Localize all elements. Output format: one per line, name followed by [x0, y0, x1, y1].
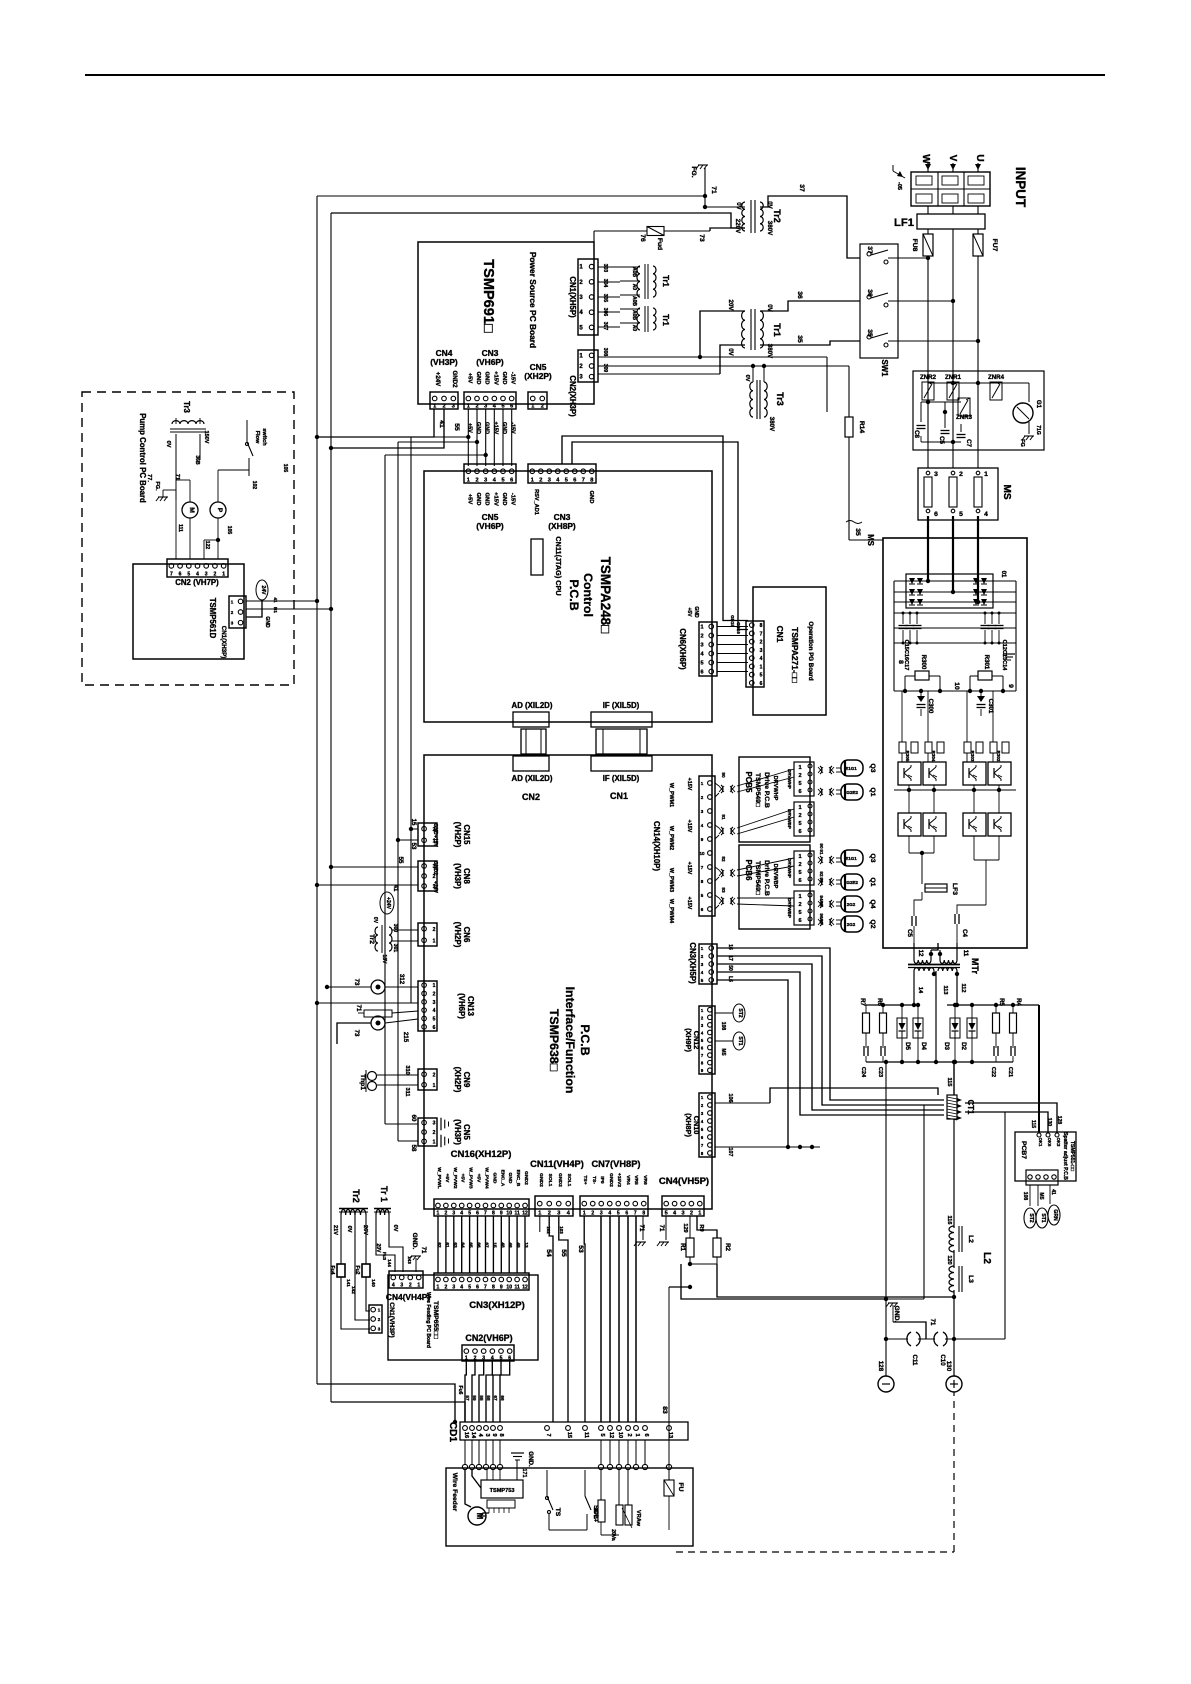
- svg-text:0V: 0V: [392, 1225, 398, 1232]
- svg-text:1: 1: [467, 478, 470, 484]
- svg-text:301: 301: [392, 944, 398, 953]
- svg-text:11: 11: [514, 1285, 520, 1291]
- svg-text:+24V: +24V: [432, 881, 438, 894]
- svg-text:3: 3: [433, 1121, 436, 1127]
- svg-text:3: 3: [484, 1433, 490, 1436]
- ground arrow -05: [893, 171, 905, 178]
- svg-text:2: 2: [433, 992, 436, 998]
- svg-text:AD (XIL2D): AD (XIL2D): [512, 774, 553, 783]
- svg-text:6: 6: [476, 1285, 479, 1291]
- wires row1 to row2: [908, 785, 910, 813]
- svg-text:TS-: TS-: [591, 1176, 597, 1184]
- wire Tr2b right tap: [365, 1215, 367, 1264]
- svg-text:9: 9: [491, 1433, 497, 1436]
- svg-text:TSMP691□: TSMP691□: [480, 259, 496, 333]
- svg-text:-15V: -15V: [510, 422, 516, 434]
- svg-text:36: 36: [866, 289, 873, 297]
- svg-text:GND: GND: [475, 372, 481, 385]
- svg-text:2G2: 2G2: [847, 902, 856, 907]
- wire thermostat lower: [385, 1019, 418, 1023]
- svg-text:48: 48: [500, 1242, 505, 1248]
- svg-text:1: 1: [701, 946, 704, 951]
- gate stubs Q4 Q2: [841, 896, 863, 912]
- transformer MTr primary left: [913, 943, 915, 960]
- svg-text:IF (XIL5D): IF (XIL5D): [603, 774, 640, 783]
- svg-text:10: 10: [506, 1285, 512, 1291]
- svg-text:+5V: +5V: [466, 373, 472, 384]
- svg-text:144: 144: [387, 1259, 392, 1267]
- svg-text:E1G1: E1G1: [845, 766, 857, 771]
- svg-text:1: 1: [634, 1433, 640, 1436]
- fuse FU feeder: [668, 1470, 670, 1480]
- svg-text:IF (XIL5D): IF (XIL5D): [603, 701, 640, 710]
- output terminal plus: [946, 1376, 962, 1392]
- svg-text:1: 1: [698, 1211, 701, 1217]
- svg-text:0V: 0V: [165, 441, 171, 448]
- svg-text:9: 9: [701, 1068, 704, 1073]
- svg-text:305: 305: [602, 294, 608, 303]
- wire CN5 pin1: [398, 1140, 418, 1142]
- svg-text:5: 5: [959, 511, 963, 518]
- svg-text:3: 3: [700, 643, 703, 649]
- svg-text:16: 16: [463, 1432, 469, 1438]
- svg-text:GND: GND: [264, 616, 270, 628]
- svg-text:73: 73: [353, 979, 360, 986]
- transformer Tr1 small lower: [637, 308, 640, 330]
- connector CN7(VH8P): [580, 1196, 648, 1216]
- fuse Fu2: [362, 1264, 370, 1277]
- resistor R7: [865, 1005, 867, 1013]
- svg-text:66: 66: [477, 1242, 482, 1248]
- svg-text:113: 113: [942, 985, 948, 994]
- svg-text:60: 60: [410, 1115, 417, 1122]
- svg-text:TSMP655□□: TSMP655□□: [432, 1301, 439, 1339]
- svg-text:CN6: CN6: [462, 927, 471, 943]
- svg-text:120: 120: [946, 1255, 952, 1264]
- svg-text:(VH6P): (VH6P): [476, 357, 504, 367]
- svg-text:6: 6: [760, 681, 763, 687]
- svg-text:5: 5: [468, 1285, 471, 1291]
- igbt module row1 d: [988, 762, 1011, 785]
- gate stubs Q3b Q1b: [841, 850, 863, 866]
- wire R phase down: [927, 256, 929, 468]
- igbt module row2 b: [923, 813, 946, 836]
- svg-text:Tr2: Tr2: [351, 1189, 361, 1202]
- svg-text:FU8: FU8: [911, 239, 918, 252]
- svg-text:50: 50: [727, 965, 733, 971]
- wire bundle to CT1 a: [717, 948, 944, 1100]
- svg-text:8: 8: [760, 623, 763, 629]
- wire Tr1 right top to SW1: [760, 301, 860, 311]
- wire Tr2 left top to FG node: [705, 206, 745, 208]
- svg-text:12: 12: [522, 1211, 528, 1217]
- svg-text:C5: C5: [938, 436, 945, 444]
- svg-text:10: 10: [506, 1211, 512, 1217]
- svg-text:90: 90: [819, 843, 824, 849]
- contactor MS box: [918, 468, 998, 520]
- svg-text:1: 1: [433, 1139, 436, 1145]
- connector CN4(VH5P): [662, 1196, 704, 1216]
- svg-text:53: 53: [410, 843, 417, 850]
- rectifier bus rows: [894, 580, 1016, 582]
- svg-text:1: 1: [798, 854, 801, 860]
- svg-text:D5: D5: [904, 1042, 911, 1050]
- svg-text:C22: C22: [990, 1067, 996, 1077]
- svg-text:CN14(XH10P): CN14(XH10P): [652, 821, 661, 871]
- svg-text:RSV_AD1: RSV_AD1: [533, 489, 539, 515]
- diode D4: [917, 1005, 919, 1018]
- svg-text:8: 8: [897, 660, 904, 664]
- svg-text:GND: GND: [432, 823, 438, 835]
- svg-text:6: 6: [573, 478, 576, 484]
- svg-text:20V: 20V: [727, 300, 734, 312]
- wire sw36 to V phase: [888, 300, 953, 302]
- svg-text:INPUT: INPUT: [1013, 167, 1028, 208]
- wire CN15 pins left: [411, 828, 418, 830]
- wire R14 to MS coil: [848, 437, 850, 540]
- transformer Tr3: [750, 382, 753, 417]
- svg-text:5: 5: [798, 821, 801, 827]
- wire bundle e: [717, 980, 788, 1147]
- svg-text:14: 14: [917, 987, 923, 994]
- svg-text:DRVWBP: DRVWBP: [787, 898, 792, 918]
- igbt module row2 a: [898, 813, 921, 836]
- capacitor C300: [917, 696, 925, 702]
- svg-text:1: 1: [231, 599, 234, 604]
- transformer Tr2: [742, 202, 745, 231]
- svg-text:220V: 220V: [734, 219, 741, 234]
- wire V term to LF1: [952, 206, 954, 214]
- svg-text:ZNR2: ZNR2: [920, 374, 937, 381]
- svg-text:GB15: GB15: [730, 615, 735, 627]
- svg-text:(XH8P): (XH8P): [548, 521, 576, 531]
- svg-text:6: 6: [701, 1135, 704, 1140]
- diode D3: [954, 1005, 956, 1018]
- svg-text:GND: GND: [475, 422, 481, 434]
- svg-text:W_PWM4: W_PWM4: [668, 899, 674, 923]
- thermostat upper: [371, 980, 385, 994]
- svg-text:L2: L2: [981, 1252, 992, 1264]
- svg-text:5: 5: [468, 1211, 471, 1217]
- bus row2 bottom: [908, 836, 910, 853]
- pot VRAw: [627, 1470, 629, 1505]
- svg-text:C4: C4: [961, 929, 968, 937]
- capacitor C5 out: [921, 892, 923, 900]
- svg-text:8: 8: [590, 478, 593, 484]
- svg-text:92: 92: [819, 871, 824, 877]
- svg-text:ENC_B: ENC_B: [515, 1170, 521, 1187]
- svg-text:2: 2: [433, 1072, 436, 1078]
- output terminal minus: [878, 1376, 894, 1392]
- connector CN8(VH3P): [418, 861, 437, 891]
- contactor MS slot 2: [949, 477, 957, 507]
- ground GND 171 feeder: [511, 1452, 524, 1454]
- snubber resistors row1: [899, 742, 906, 753]
- pump board TSMP561D: [133, 564, 244, 659]
- wire sw35 to T phase: [888, 340, 978, 342]
- svg-text:GND.: GND.: [893, 1306, 900, 1323]
- svg-text:E1G1: E1G1: [845, 856, 857, 861]
- svg-text:5: 5: [701, 893, 704, 898]
- connector CN5(XH2P) power: [528, 392, 547, 409]
- svg-text:0V: 0V: [372, 917, 378, 924]
- connector CN4(VH3P) power: [430, 392, 458, 409]
- svg-text:8: 8: [642, 1211, 645, 1217]
- svg-text:1PB+: 1PB+: [592, 1508, 598, 1523]
- svg-text:49: 49: [516, 1242, 521, 1248]
- bus row mid: [894, 690, 1016, 692]
- svg-text:2: 2: [760, 640, 763, 646]
- svg-text:Spatter adjust P.C.B: Spatter adjust P.C.B: [1062, 1132, 1068, 1180]
- left cluster bus: [866, 1004, 914, 1006]
- svg-text:10: 10: [953, 682, 960, 690]
- switch SW1 pole 36: [867, 295, 871, 299]
- svg-text:3: 3: [760, 648, 763, 654]
- resistor R301: [969, 676, 971, 691]
- igbt module row1 b: [923, 762, 946, 785]
- svg-text:71: 71: [420, 1247, 427, 1254]
- svg-text:1: 1: [760, 664, 763, 670]
- svg-text:Drive P.C.B: Drive P.C.B: [763, 860, 770, 896]
- svg-text:L6: L6: [727, 976, 733, 982]
- svg-text:R303: R303: [970, 751, 975, 762]
- svg-text:2: 2: [798, 862, 801, 868]
- ground marks CN5: [440, 1118, 442, 1131]
- svg-text:6: 6: [510, 404, 513, 410]
- svg-text:57: 57: [465, 1395, 470, 1401]
- svg-text:3: 3: [433, 1000, 436, 1006]
- opto pairs gates: [820, 766, 822, 774]
- connector CN13(VH6P): [418, 981, 437, 1031]
- svg-text:2: 2: [701, 1103, 704, 1108]
- svg-text:FU: FU: [677, 1483, 684, 1492]
- svg-text:C15C16C17: C15C16C17: [903, 640, 909, 671]
- wire Tr2b left tap: [340, 1215, 342, 1264]
- svg-text:35: 35: [796, 335, 803, 343]
- fuse Fu4: [337, 1264, 345, 1277]
- connector IF mid: [596, 729, 647, 754]
- transformer MTr core: [908, 964, 960, 966]
- svg-text:1: 1: [531, 404, 534, 410]
- connector CN5(VH3P) interface: [418, 1118, 437, 1146]
- svg-text:2: 2: [444, 1285, 447, 1291]
- svg-text:CN13: CN13: [466, 996, 475, 1017]
- wires motor: [481, 1513, 489, 1516]
- svg-text:4: 4: [460, 1211, 463, 1217]
- connector IF(XIL5D) lower: [591, 756, 652, 771]
- wire left bus 1: [316, 196, 318, 1384]
- connector CN3(VH6P) power: [464, 392, 516, 409]
- svg-text:3: 3: [579, 375, 583, 381]
- connector AD mid: [521, 729, 546, 754]
- svg-text:311: 311: [404, 1087, 410, 1096]
- svg-text:16: 16: [727, 944, 733, 950]
- svg-text:96: 96: [819, 913, 824, 919]
- node +24V oval: [380, 892, 394, 914]
- spatter board PCB7: [1015, 1132, 1076, 1181]
- wires junction to feeder pcb: [486, 1470, 488, 1480]
- svg-text:GND: GND: [484, 422, 490, 434]
- wires Tr3 pump: [175, 418, 177, 424]
- svg-text:FU7: FU7: [991, 239, 998, 252]
- svg-text:4: 4: [701, 970, 704, 975]
- svg-text:CN7(VH8P): CN7(VH8P): [591, 1159, 640, 1169]
- wire znr top bus: [928, 382, 996, 384]
- svg-text:8: 8: [701, 879, 704, 884]
- svg-text:R305: R305: [905, 751, 910, 762]
- svg-text:Control: Control: [581, 573, 595, 617]
- svg-text:21V: 21V: [332, 1225, 338, 1235]
- svg-text:8: 8: [701, 1151, 704, 1156]
- svg-text:D4: D4: [920, 1042, 927, 1050]
- svg-text:300: 300: [392, 924, 398, 933]
- svg-text:3: 3: [231, 621, 234, 626]
- switch SW1 pole 35: [867, 335, 871, 339]
- svg-text:CN16(XH12P): CN16(XH12P): [451, 1149, 512, 1160]
- wire LF1 to FU8: [927, 229, 929, 234]
- node 24V oval pump: [256, 580, 268, 600]
- svg-text:R14: R14: [858, 421, 865, 434]
- connector PCB6 upper: [794, 851, 814, 885]
- svg-text:C21: C21: [1007, 1067, 1013, 1077]
- wire bundle to CT1 d: [717, 972, 944, 1115]
- bus row modules: [894, 789, 1016, 791]
- svg-text:15: 15: [492, 1242, 497, 1248]
- svg-text:2: 2: [214, 572, 217, 578]
- current transformer CT1: [947, 1095, 957, 1119]
- svg-text:V: V: [947, 155, 958, 162]
- svg-text:59: 59: [472, 1395, 477, 1401]
- svg-text:CN11(VH4P): CN11(VH4P): [530, 1159, 584, 1169]
- svg-text:94: 94: [819, 895, 824, 901]
- capacitor C5a: [944, 418, 946, 428]
- svg-text:1: 1: [417, 1283, 420, 1289]
- pot 1PM: [600, 1470, 602, 1500]
- svg-text:71: 71: [710, 186, 717, 194]
- svg-text:105: 105: [226, 526, 232, 535]
- wire branch GND left: [398, 441, 477, 443]
- svg-text:0V: 0V: [766, 201, 773, 209]
- svg-text:129: 129: [682, 1223, 688, 1232]
- svg-text:01: 01: [1000, 571, 1007, 578]
- svg-text:FG: FG: [1019, 439, 1025, 447]
- svg-text:116: 116: [946, 1215, 952, 1224]
- svg-text:2: 2: [444, 1211, 447, 1217]
- wire Tr1 right bottom to SW1: [760, 341, 860, 345]
- svg-text:+5V: +5V: [476, 1174, 482, 1184]
- svg-text:7: 7: [582, 478, 585, 484]
- transformer Tr2 small: [375, 927, 378, 951]
- node GRN oval: [1048, 1205, 1060, 1225]
- svg-text:8: 8: [701, 1061, 704, 1066]
- svg-text:+24V: +24V: [385, 897, 391, 910]
- svg-text:Tr1: Tr1: [661, 314, 670, 326]
- svg-text:67: 67: [493, 1395, 498, 1401]
- svg-text:Tr3: Tr3: [182, 401, 191, 413]
- wire right drop to caps: [1004, 1112, 1006, 1339]
- svg-text:CN9: CN9: [462, 1072, 471, 1088]
- switch SW1 pole 37: [867, 252, 871, 256]
- resistor R300: [904, 676, 906, 691]
- wire CN2 pin3 right: [598, 373, 720, 375]
- svg-text:R7: R7: [859, 998, 866, 1006]
- chassis FG top: [704, 168, 706, 207]
- svg-text:TSMP753: TSMP753: [490, 1488, 515, 1494]
- svg-text:1: 1: [579, 265, 583, 271]
- svg-text:GND2: GND2: [451, 370, 458, 388]
- fuse FU8: [923, 234, 933, 256]
- svg-text:71: 71: [174, 474, 180, 480]
- wire plus bus top: [953, 1062, 955, 1095]
- svg-text:GND2: GND2: [432, 861, 438, 875]
- svg-text:73: 73: [698, 234, 705, 242]
- svg-text:2: 2: [231, 610, 234, 615]
- wires pump CN1 right: [246, 600, 317, 602]
- svg-text:6: 6: [179, 572, 182, 578]
- svg-text:A0B: A0B: [631, 267, 637, 277]
- svg-text:CN3(XH12P): CN3(XH12P): [469, 1300, 525, 1311]
- connector CN5(VH6P) control: [464, 464, 516, 483]
- svg-text:106: 106: [727, 1094, 733, 1103]
- svg-text:+15V: +15V: [686, 862, 692, 875]
- surge absorber box: [913, 371, 1044, 450]
- svg-text:8: 8: [492, 1211, 495, 1217]
- svg-text:GND.: GND.: [527, 1451, 534, 1467]
- connector PCB5 upper: [794, 762, 814, 796]
- svg-text:91: 91: [819, 849, 824, 855]
- svg-text:R304: R304: [931, 751, 936, 762]
- wire Tr3 taps: [752, 366, 754, 382]
- svg-text:GRN: GRN: [1052, 1209, 1058, 1221]
- capacitor C301: [977, 696, 985, 702]
- svg-text:107: 107: [727, 1148, 733, 1157]
- svg-text:(VH3P): (VH3P): [453, 863, 462, 889]
- svg-text:CN3(XH5P): CN3(XH5P): [688, 942, 697, 984]
- transformer MTr primary right: [939, 950, 941, 960]
- svg-text:5: 5: [500, 1356, 503, 1362]
- svg-text:2: 2: [378, 1317, 381, 1322]
- wires opto to PCB5: [737, 769, 794, 786]
- wires PCB7 to nodes: [1029, 1185, 1031, 1206]
- svg-text:76: 76: [639, 234, 646, 242]
- svg-text:Q1: Q1: [869, 878, 876, 887]
- svg-text:6: 6: [798, 878, 801, 884]
- svg-text:+5V: +5V: [686, 607, 692, 617]
- wire 0V bus left: [317, 195, 705, 197]
- svg-text:Q1: Q1: [869, 788, 876, 797]
- svg-text:3: 3: [600, 1211, 603, 1217]
- heavy phase drop T: [977, 516, 979, 602]
- connector CN6(XH6P) control: [699, 622, 717, 676]
- svg-text:5: 5: [798, 910, 801, 916]
- svg-text:(XH2P): (XH2P): [524, 371, 552, 381]
- svg-text:71G: 71G: [1035, 425, 1041, 435]
- drive board PCB6: [739, 845, 810, 929]
- svg-text:0V: 0V: [735, 202, 742, 210]
- svg-text:55: 55: [397, 857, 404, 864]
- svg-text:4: 4: [701, 823, 704, 828]
- svg-text:18V: 18V: [381, 955, 387, 965]
- wire bottom bus b: [331, 1402, 465, 1422]
- svg-text:M5: M5: [1038, 1193, 1044, 1200]
- dc rails: [893, 581, 895, 691]
- wires CN14 to optos: [715, 783, 719, 786]
- svg-text:2: 2: [433, 927, 436, 933]
- svg-text:R1: R1: [679, 1243, 686, 1251]
- svg-text:ST2: ST2: [737, 1008, 743, 1017]
- connector CN9(XH2P): [418, 1069, 437, 1090]
- connector PCB6 lower: [794, 891, 814, 925]
